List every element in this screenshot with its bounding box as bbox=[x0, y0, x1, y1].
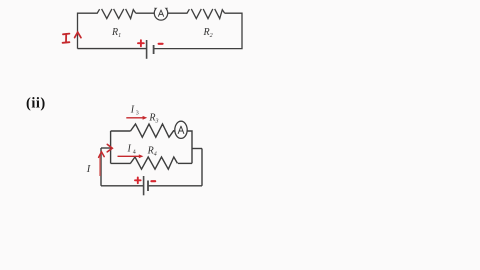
svg-text:I: I bbox=[127, 144, 132, 155]
wire: circuit 2 right outer vertical bbox=[201, 149, 203, 186]
wire: circuit 2 right vertical between branches bbox=[187, 131, 192, 163]
wire: circuit 2 bottom branch right bbox=[178, 162, 192, 164]
arrow junction right (red chevron) circuit 2 bbox=[107, 144, 112, 152]
svg-text:3: 3 bbox=[136, 111, 139, 117]
resistor R2 bbox=[191, 9, 224, 19]
wire: circuit 2 left outer vertical bbox=[100, 148, 102, 186]
wire: circuit 2 top branch left bbox=[111, 130, 131, 132]
label I current circuit 1 (red) bbox=[63, 34, 70, 43]
wire: circuit 2 left vertical between branches bbox=[110, 131, 112, 163]
arrow I3 (red) bbox=[126, 116, 147, 120]
wire: circuit 1 top-left segment bbox=[78, 9, 100, 48]
ammeter A2 letter bbox=[178, 126, 184, 133]
label - battery B1 (red) bbox=[159, 43, 163, 45]
resistor R1 bbox=[102, 9, 136, 19]
svg-text:I: I bbox=[86, 164, 91, 175]
ammeter A1 open-top circle bbox=[154, 8, 167, 20]
wire: ammeter to R2 bbox=[168, 9, 190, 13]
arrow current I up (red) circuit 2 bbox=[99, 152, 105, 176]
battery B1 short plate bbox=[153, 45, 155, 54]
battery B1 long plate bbox=[146, 40, 148, 59]
label + battery B1 (red) bbox=[138, 40, 144, 46]
battery B2 short plate bbox=[147, 181, 149, 192]
arrow I4 (red) bbox=[118, 154, 144, 158]
svg-text:4: 4 bbox=[133, 150, 136, 156]
wire: circuit 1 right side bbox=[154, 13, 242, 48]
resistor R3 bbox=[131, 124, 174, 137]
label + battery B2 (red) bbox=[135, 177, 141, 183]
wire: circuit 2 bottom right segment bbox=[148, 185, 202, 187]
wire: circuit 2 left stub bbox=[101, 147, 111, 149]
svg-text:I: I bbox=[130, 105, 135, 116]
ammeter A1 letter bbox=[158, 10, 163, 16]
wire: circuit 2 right stub bbox=[192, 148, 202, 150]
battery B2 long plate bbox=[143, 176, 145, 195]
svg-text:(ii): (ii) bbox=[26, 96, 46, 112]
ammeter A2 bbox=[175, 121, 187, 138]
label - battery B2 (red) bbox=[151, 180, 155, 182]
wire: R1 to ammeter bbox=[136, 12, 155, 14]
wire: circuit 2 bottom branch left bbox=[111, 162, 131, 164]
arrow current up circuit 1 (red chevron) bbox=[75, 32, 81, 38]
wire: R3 to ammeter A2 bbox=[173, 130, 175, 132]
wire: circuit 1 bottom-left segment bbox=[78, 48, 147, 50]
resistor R4 bbox=[130, 157, 177, 169]
wire: circuit 2 bottom left segment bbox=[101, 185, 144, 187]
